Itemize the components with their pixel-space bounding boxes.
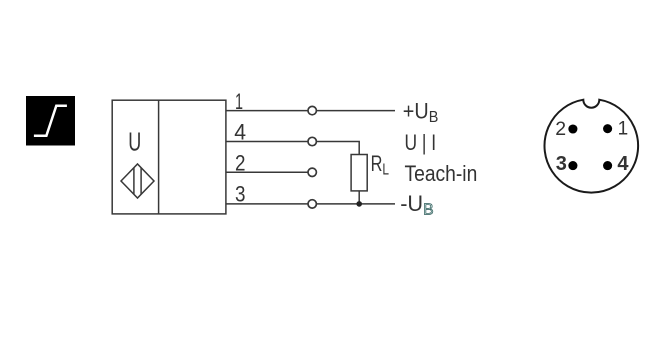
svg-text:4: 4 (234, 120, 246, 145)
output characteristic icon (black square) (26, 96, 75, 146)
terminal circle pin 4 (308, 137, 316, 145)
svg-text:U: U (128, 128, 141, 156)
output symbol diamond (121, 164, 154, 198)
svg-text:4: 4 (617, 153, 629, 175)
svg-text:3: 3 (235, 182, 246, 207)
svg-text:3: 3 (556, 153, 567, 175)
svg-text:2: 2 (235, 150, 246, 175)
terminal circle pin 1 (308, 106, 316, 114)
svg-text:1: 1 (235, 89, 243, 114)
svg-text:+UB: +UB (403, 98, 439, 126)
wire from pin4 to resistor (317, 142, 360, 155)
wire pin3 segment from box (226, 203, 308, 205)
wire +UB segment (317, 110, 396, 112)
wire resistor to -UB line (358, 191, 360, 204)
connector pin dot 1 (top-right) (603, 124, 612, 133)
connector pin dot 3 (bottom-left) (568, 161, 577, 170)
sensor box U1 (112, 100, 226, 214)
terminal circle pin 2 (308, 168, 316, 176)
sensor box divider (158, 100, 160, 214)
wire pin4 segment from box (226, 141, 308, 143)
connector pin dot 2 (top-left) (568, 124, 577, 133)
svg-text:Teach-in: Teach-in (405, 161, 478, 186)
wire pin1 segment from box (226, 110, 308, 112)
junction dot on -UB line (356, 201, 362, 207)
wire pin2 segment from box (226, 171, 308, 173)
output symbol diamond inner line right (140, 168, 142, 195)
svg-text:-UB: -UB (400, 191, 434, 219)
svg-text:RL: RL (371, 151, 389, 179)
terminal circle pin 3 (308, 200, 316, 208)
connector body circle with notch (544, 100, 638, 193)
resistor RL body (351, 155, 367, 191)
svg-text:2: 2 (555, 118, 566, 140)
wire -UB segment (317, 203, 396, 205)
output characteristic icon ramp stroke (34, 106, 67, 136)
connector pin dot 4 (bottom-right) (603, 161, 612, 170)
svg-text:1: 1 (618, 119, 629, 140)
output symbol diamond inner line left (133, 168, 135, 195)
svg-text:U | I: U | I (405, 130, 437, 155)
